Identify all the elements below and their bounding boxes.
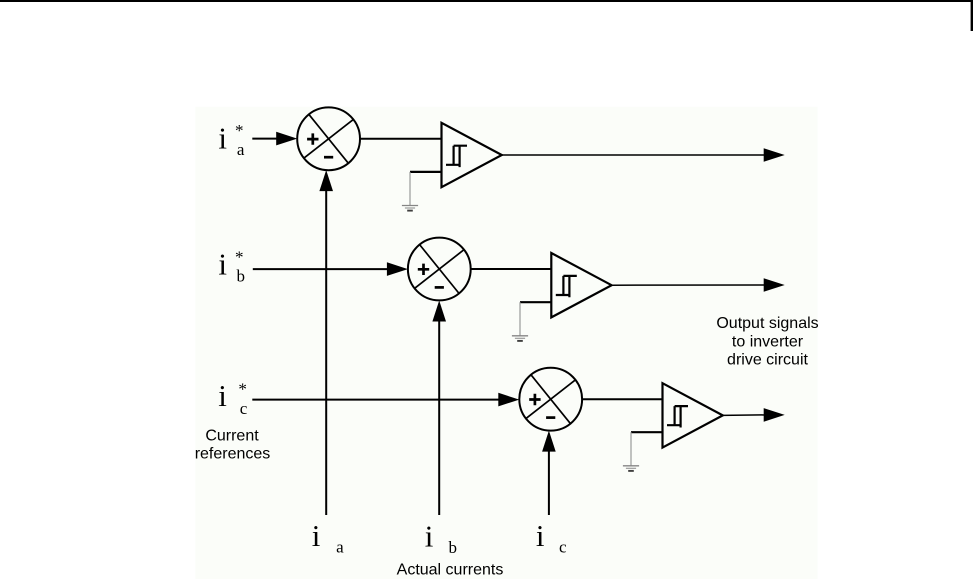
svg-text:references: references <box>195 445 271 462</box>
svg-text:drive circuit: drive circuit <box>727 352 808 369</box>
svg-text:a: a <box>237 140 245 159</box>
svg-text:c: c <box>559 538 567 557</box>
svg-text:to inverter: to inverter <box>732 333 804 350</box>
svg-text:b: b <box>449 538 458 557</box>
svg-text:i: i <box>218 378 227 413</box>
svg-text:*: * <box>235 248 244 267</box>
svg-text:Current: Current <box>205 427 259 444</box>
svg-text:i: i <box>218 246 227 281</box>
svg-text:b: b <box>237 267 246 286</box>
svg-text:i: i <box>425 519 434 554</box>
svg-text:*: * <box>235 121 244 140</box>
svg-text:c: c <box>240 399 248 418</box>
svg-text:i: i <box>218 121 227 156</box>
svg-text:i: i <box>536 518 545 553</box>
svg-text:*: * <box>238 380 247 399</box>
svg-text:a: a <box>336 537 344 556</box>
svg-text:i: i <box>312 518 321 553</box>
svg-text:Actual currents: Actual currents <box>397 561 504 578</box>
svg-text:Output signals: Output signals <box>716 315 818 332</box>
